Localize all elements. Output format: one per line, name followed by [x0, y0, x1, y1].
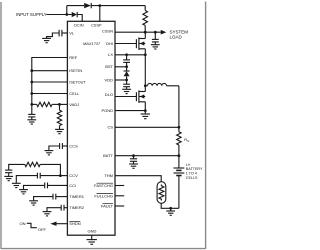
node CSSP rail junction — [98, 4, 101, 7]
svg-text:CSSN: CSSN — [102, 28, 113, 33]
thermistor RT1 — [157, 182, 166, 204]
node bus CELL junction — [30, 92, 33, 95]
ground load cap — [151, 45, 160, 49]
node CSSN-R1 junction — [144, 31, 147, 34]
node BST junction — [125, 65, 128, 68]
node IC pin labels — [69, 23, 113, 233]
svg-text:DCIN: DCIN — [74, 23, 84, 27]
svg-text:TIMER1: TIMER1 — [69, 194, 84, 199]
ground battery return — [166, 208, 175, 215]
wire LX to inductor drop — [144, 55, 146, 86]
node BATT cap junction — [132, 154, 135, 157]
capacitor C6 REF bypass — [28, 114, 35, 119]
node VDD junction — [125, 79, 128, 82]
svg-text:VADJ: VADJ — [69, 102, 79, 107]
svg-text:S: S — [187, 139, 189, 143]
wire PGND rail — [115, 110, 145, 112]
capacitor C2 bootstrap — [123, 55, 130, 67]
capacitor C4 BATT — [130, 156, 137, 164]
svg-text:PGND: PGND — [101, 108, 113, 113]
capacitor C12 TIMER2 — [47, 205, 67, 211]
svg-text:DLO: DLO — [105, 92, 113, 97]
svg-text:CCS: CCS — [69, 144, 78, 149]
svg-text:SHDN: SHDN — [69, 221, 80, 226]
wire GND pin — [91, 235, 93, 239]
svg-text:CELLS: CELLS — [186, 176, 198, 180]
wire thermistor bottom — [161, 203, 179, 208]
svg-text:LX: LX — [108, 52, 113, 57]
resistor R3 VADJ lower — [57, 104, 61, 129]
svg-text:FULLCHG: FULLCHG — [94, 193, 113, 198]
node FASTCHG overline — [97, 182, 114, 184]
node bus ISETOUT junction — [30, 81, 33, 84]
node bus VADJ junction — [30, 103, 33, 106]
node load cap junction — [154, 31, 157, 34]
resistor R1 top right — [143, 6, 148, 33]
capacitor C7 CCS — [49, 143, 68, 150]
svg-text:GND: GND — [88, 229, 97, 234]
wire riser to top rail — [66, 6, 68, 15]
node SYSTEM LOAD arrow — [161, 30, 167, 35]
node LX-FET junction — [144, 53, 147, 56]
svg-text:CELL: CELL — [69, 91, 80, 96]
svg-text:CCI: CCI — [69, 183, 76, 188]
wire top rail right segment — [91, 5, 145, 7]
svg-text:FAULT: FAULT — [101, 204, 114, 209]
wire FULLCHG stub — [115, 195, 124, 197]
wire BST pin — [115, 66, 127, 68]
resistor RS — [177, 127, 181, 155]
wire SHDN arrow — [50, 222, 67, 226]
diode D3 bootstrap — [124, 67, 130, 80]
resistor R4 CCV — [9, 162, 61, 175]
wire THM rail — [115, 176, 161, 182]
svg-text:ISETIN: ISETIN — [69, 68, 82, 73]
node VADJ junction — [58, 103, 61, 106]
border frame — [1, 2, 206, 249]
wire input supply lead — [46, 14, 66, 16]
wire CSSP riser — [99, 6, 101, 22]
node CCV junction — [59, 174, 62, 177]
ground R3 — [55, 129, 64, 133]
ground CCV R path — [4, 176, 13, 180]
diode D2 top rail — [84, 3, 91, 8]
capacitor C3 VDD bypass — [123, 80, 130, 89]
wire FASTCHG stub — [115, 185, 124, 187]
svg-text:MAX1737: MAX1737 — [83, 41, 101, 46]
wire LX rail — [115, 54, 145, 56]
resistor R2 VADJ upper — [32, 102, 60, 106]
capacitor C10 CCI — [24, 183, 68, 190]
node battery junction — [178, 154, 181, 157]
svg-text:LOAD: LOAD — [170, 34, 183, 39]
svg-text:REF: REF — [69, 55, 78, 60]
wire diode to DCIN riser — [77, 15, 82, 22]
battery BT1 — [174, 156, 185, 209]
wire CCV pin — [60, 175, 67, 177]
ground TIMER1 cap — [29, 201, 38, 205]
ground GND pin — [87, 240, 97, 245]
svg-text:VDD: VDD — [105, 77, 114, 82]
transistor Q2 low-side NMOS — [115, 86, 145, 111]
svg-text:ON: ON — [20, 221, 26, 226]
node battery label — [186, 163, 203, 180]
node bus ISETIN junction — [30, 69, 33, 72]
op-amp U1 MAX1737 IC body — [67, 21, 115, 235]
ground CCV cap path — [12, 183, 21, 187]
svg-text:CCV: CCV — [69, 173, 78, 178]
node PGND junction — [144, 109, 147, 112]
svg-text:FASTCHG: FASTCHG — [94, 183, 113, 188]
node FULLCHG overline — [97, 193, 114, 195]
capacitor C8 CCV series — [5, 170, 12, 176]
capacitor C11 TIMER1 — [34, 194, 68, 201]
wire ISETIN — [32, 70, 68, 72]
node thermistor-battery junction — [169, 207, 172, 210]
svg-text:OFF: OFF — [38, 227, 47, 232]
ground VDD cap — [122, 89, 131, 93]
ground TIMER2 cap — [43, 212, 52, 216]
wire CSSN rail — [115, 31, 161, 33]
svg-text:INPUT SUPPLY: INPUT SUPPLY — [16, 12, 47, 17]
wire CELL — [32, 93, 68, 95]
wire ISETOUT — [32, 81, 68, 83]
node FAULT overline — [103, 203, 114, 205]
node SHDN overline — [69, 220, 80, 222]
wire VDD pin — [115, 79, 127, 81]
svg-text:CSSP: CSSP — [91, 23, 102, 27]
wire inductor output down — [178, 86, 180, 128]
ground VL cap — [42, 38, 51, 42]
node input junction — [65, 13, 68, 16]
switch S1 ON/OFF — [20, 221, 47, 232]
node inductor junction — [144, 84, 147, 87]
svg-text:BATT: BATT — [103, 153, 113, 158]
node LX-BST junction — [125, 53, 128, 56]
ground REF cap — [27, 120, 36, 124]
ground PGND — [141, 111, 150, 119]
inductor L1 — [145, 83, 179, 85]
svg-text:CS: CS — [107, 125, 113, 130]
svg-text:ISETOUT: ISETOUT — [69, 81, 86, 85]
wire DCIN branch — [67, 14, 72, 16]
wire VADJ pin — [60, 103, 68, 105]
diode D1 DCIN — [72, 12, 78, 17]
svg-text:DHI: DHI — [106, 41, 113, 46]
wire top rail left segment — [67, 5, 84, 7]
transistor Q1 high-side NMOS — [115, 32, 145, 55]
capacitor C9 CCV parallel — [16, 173, 60, 183]
wire REF to bus — [32, 58, 68, 115]
wire FAULT stub — [115, 205, 124, 207]
ground CCS cap — [45, 151, 54, 155]
svg-text:THM: THM — [104, 173, 113, 178]
svg-text:BST: BST — [105, 64, 113, 69]
ground BATT cap — [129, 164, 138, 168]
capacitor C5 VL bypass — [47, 30, 68, 38]
svg-text:TIMER2: TIMER2 — [69, 205, 84, 210]
ground CCI cap — [19, 190, 28, 194]
wire BATT rail — [115, 155, 179, 157]
capacitor C1 system load — [152, 32, 159, 44]
node CS junction — [178, 126, 181, 129]
svg-text:VL: VL — [69, 31, 75, 36]
wire CS rail — [115, 126, 179, 128]
